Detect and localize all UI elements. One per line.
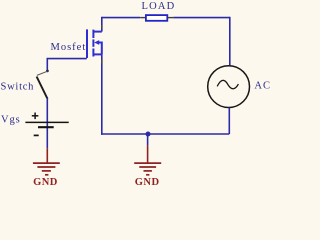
mosfet Q1: [87, 29, 102, 58]
AC source circle: [208, 66, 250, 108]
gate plate: [86, 29, 88, 58]
ground GND1 bars: [33, 163, 60, 175]
ground GND2 bars: [134, 163, 161, 175]
AC sine wave: [217, 80, 238, 88]
switch fixed contact tick: [37, 71, 47, 75]
node: junction dot on bottom rail: [146, 132, 151, 137]
wire: AC bottom to bottom rail: [228, 108, 230, 135]
wire: bottom rail: [101, 133, 229, 135]
source stub: [93, 53, 101, 55]
wire: top rail right of LOAD: [173, 17, 229, 19]
ground GND2 stem: [147, 146, 149, 163]
wire: junction to ground (blue part): [147, 134, 149, 146]
battery minus sign: [34, 134, 39, 136]
body stub with corner to source: [98, 43, 101, 55]
wire: top rail left of LOAD: [102, 17, 140, 19]
wire: left rail of output loop up to mosfet source: [101, 54, 103, 134]
mosfet source pin nub (dark): [101, 60, 103, 64]
svg-text:Switch: Switch: [1, 82, 35, 93]
svg-text:LOAD: LOAD: [142, 1, 176, 12]
channel segment source: [92, 49, 94, 57]
channel segment body: [92, 39, 94, 46]
wire: drain lead up to top rail: [101, 17, 103, 32]
wire: right rail down to AC source: [229, 17, 231, 66]
svg-text:Mosfet: Mosfet: [51, 42, 87, 53]
channel segment drain: [92, 30, 94, 38]
svg-text:GND: GND: [135, 177, 160, 187]
wire: LOAD right lead (dark): [167, 17, 173, 19]
switch lever: [37, 77, 48, 99]
mosfet drain pin nub (dark): [101, 25, 103, 29]
wire: gate lead to switch: [47, 59, 87, 70]
svg-text:AC: AC: [254, 80, 270, 91]
svg-text:Vgs: Vgs: [1, 114, 21, 125]
ground GND1 stem: [46, 148, 48, 163]
wire: switch to battery and down: [46, 98, 48, 148]
battery short plate (-): [38, 126, 54, 128]
mosfet body arrow head: [94, 40, 99, 45]
battery long plate (+): [25, 121, 68, 123]
resistor LOAD box: [146, 15, 167, 21]
svg-text:GND: GND: [33, 177, 58, 187]
drain stub: [93, 31, 101, 33]
switch top contact dot: [46, 70, 49, 73]
battery Vgs plus sign: [32, 113, 39, 120]
wire: LOAD left lead (dark): [140, 17, 146, 19]
